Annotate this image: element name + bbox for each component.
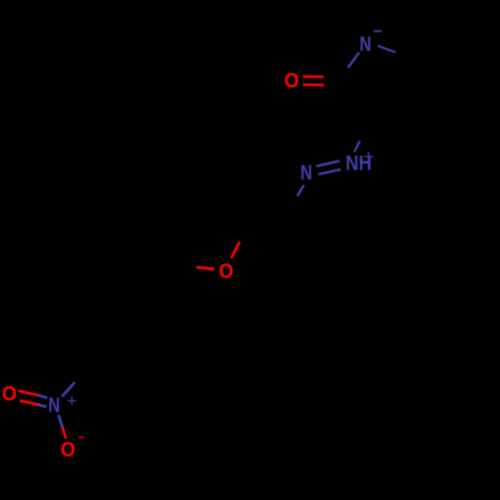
svg-text:N: N <box>300 161 312 184</box>
svg-text:N: N <box>48 393 60 416</box>
svg-text:N: N <box>360 32 372 55</box>
svg-text:O: O <box>219 260 234 283</box>
svg-text:O: O <box>61 439 76 462</box>
svg-text:O: O <box>2 383 17 406</box>
svg-text:NH: NH <box>346 152 372 176</box>
svg-text:O: O <box>284 70 299 93</box>
